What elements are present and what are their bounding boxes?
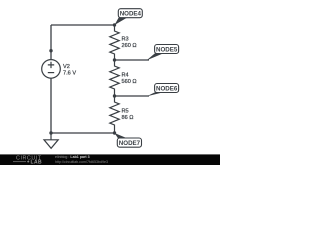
svg-text:elinblog : Lab1 part 3: elinblog : Lab1 part 3	[55, 155, 90, 159]
svg-text:V2: V2	[63, 64, 70, 70]
node C junction mid2 (NODE6)	[113, 94, 116, 97]
svg-text:NODE5: NODE5	[156, 46, 178, 53]
ground	[44, 133, 58, 148]
svg-text:R3: R3	[122, 37, 129, 43]
node terminal dot V2 top	[49, 49, 52, 52]
resistor R3	[110, 25, 119, 60]
node A junction top (NODE4)	[113, 23, 116, 26]
svg-text:LAB: LAB	[31, 160, 42, 165]
svg-text:R4: R4	[122, 73, 129, 79]
flag NODE5	[147, 45, 179, 61]
svg-text:R5: R5	[122, 109, 129, 115]
svg-text:86 Ω: 86 Ω	[122, 115, 134, 121]
wire top horizontal	[51, 24, 115, 26]
footer logo CircuitLab	[13, 156, 42, 166]
voltage source V2	[42, 60, 61, 79]
node B junction mid1 (NODE5)	[113, 58, 116, 61]
wire left vertical bottom	[50, 78, 52, 133]
svg-text:NODE7: NODE7	[119, 140, 141, 147]
flag NODE4	[115, 9, 143, 25]
junction ground node	[49, 131, 52, 134]
flag NODE7	[115, 133, 142, 147]
svg-text:NODE6: NODE6	[156, 85, 178, 92]
svg-text:NODE4: NODE4	[120, 11, 142, 18]
svg-text:7.6 V: 7.6 V	[63, 71, 76, 77]
wire bottom horizontal	[51, 132, 115, 134]
svg-text:260 Ω: 260 Ω	[122, 43, 137, 49]
wire left vertical top	[50, 25, 52, 60]
resistor R5	[110, 96, 119, 133]
svg-text:http://circuitlab.com/7fd653bd: http://circuitlab.com/7fd653bd9e3	[55, 160, 108, 164]
resistor R4	[110, 60, 119, 96]
wire stub NODE5	[115, 59, 150, 61]
svg-text:560 Ω: 560 Ω	[122, 79, 137, 85]
wire stub NODE6	[115, 95, 150, 97]
footer bar	[0, 154, 220, 165]
label V2 value	[63, 64, 76, 77]
node D junction bottom (NODE7)	[113, 131, 116, 134]
flag NODE6	[147, 84, 179, 97]
